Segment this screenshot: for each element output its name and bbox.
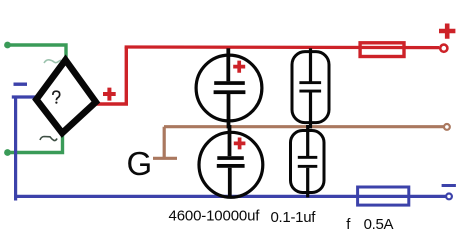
svg-text:4600-10000uf: 4600-10000uf bbox=[169, 207, 261, 224]
wire red positive rail bbox=[125, 45, 439, 49]
plus marker at bridge output (red) bbox=[103, 88, 116, 101]
node AC2 (green terminal dot bottom-left) bbox=[4, 149, 11, 156]
fuse F1 (red, positive rail) bbox=[360, 43, 404, 57]
wire brown ground rail bbox=[164, 125, 444, 128]
plus marker C2 bbox=[234, 138, 246, 150]
capacitor C4 (bottom film 0.1-1uf) bbox=[291, 125, 325, 197]
wire green AC bottom bbox=[8, 133, 63, 153]
svg-text:G: G bbox=[127, 145, 153, 182]
plus marker output (red) bbox=[439, 24, 455, 39]
AC squiggle top bbox=[44, 60, 61, 63]
minus marker output (blue) bbox=[442, 184, 456, 187]
capacitor C1 (top electrolytic 4600-10000uf) bbox=[196, 48, 262, 128]
capacitor C3 (top film 0.1-1uf) bbox=[292, 48, 329, 128]
terminal + output (red ring) bbox=[440, 45, 447, 52]
ground stub wire bbox=[153, 127, 177, 159]
wire green AC top bbox=[8, 45, 67, 62]
wire blue minus output bbox=[12, 95, 36, 98]
svg-text:0.1-1uf: 0.1-1uf bbox=[271, 209, 317, 226]
wire red bridge to rail bbox=[96, 47, 128, 104]
plus marker C1 bbox=[233, 61, 245, 73]
minus marker (AC side, blue) bbox=[14, 83, 28, 86]
node AC1 (green terminal dot top-left) bbox=[4, 42, 11, 49]
bridge rectifier BR1 bbox=[36, 60, 96, 133]
terminal G (brown ring) bbox=[444, 124, 450, 130]
fuse F2 (blue, negative rail) bbox=[358, 187, 409, 205]
AC squiggle bottom bbox=[40, 137, 57, 141]
capacitor C2 (bottom electrolytic 4600-10000uf) bbox=[199, 125, 263, 198]
svg-text:0.5A: 0.5A bbox=[364, 216, 394, 233]
terminal - output (blue ring) bbox=[446, 194, 452, 200]
wire blue negative rail bbox=[14, 195, 446, 198]
